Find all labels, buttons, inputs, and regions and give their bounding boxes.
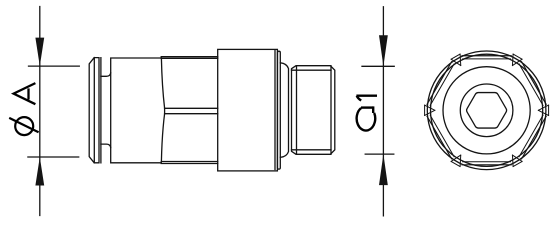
extension line bottom (Ø A): [28, 156, 79, 158]
extension line top (G1): [362, 65, 394, 67]
end view hex corner facet triangles: [425, 54, 549, 167]
collet stem top with fillet: [101, 73, 111, 77]
shoulder hub: [280, 63, 288, 158]
label Ø A : glyph A (rotated): [14, 83, 36, 104]
thread chamfer circle edge: [330, 66, 332, 155]
hex section outline: [161, 57, 218, 164]
thread minor line bottom: [292, 149, 332, 151]
thread relief line: [296, 66, 298, 155]
end view flat chamfer lines: [430, 59, 543, 162]
flange outline: [218, 49, 278, 170]
extension line top (Ø A): [29, 65, 80, 67]
hex center edge lines: [165, 108, 218, 113]
hex inner top line: [161, 57, 217, 59]
thread outline: [292, 66, 335, 155]
extension line bottom (G1): [365, 153, 394, 155]
gasket ring: [278, 51, 281, 169]
arrowhead down (G1 top): [379, 35, 388, 66]
collet stem bottom with fillet: [101, 144, 111, 148]
flange chamfer edge: [274, 51, 276, 170]
thread minor line top: [292, 69, 332, 71]
dimension line G1: [382, 7, 384, 216]
hex chamfer arc middle band: [164, 108, 166, 113]
label G1 : glyph 1 (rotated): [356, 96, 377, 101]
end view chamfer circle: [431, 54, 543, 166]
hex inner bottom line: [161, 161, 217, 163]
label Ø A : glyph Ø (rotated, circle + overshooting slash): [9, 117, 38, 135]
hex chamfer arc upper face: [161, 58, 164, 108]
label G1 : glyph G (rotated): [357, 106, 376, 130]
end view inner circle C: [443, 67, 530, 154]
end view outer circle: [427, 51, 546, 170]
arrowhead down (Ø A top): [35, 38, 44, 67]
hex chamfer arc lower face: [161, 114, 164, 162]
arrowhead up (Ø A bottom): [35, 157, 44, 186]
end view socket circle: [460, 84, 513, 137]
collet flange outline: [89, 58, 101, 163]
body outline: [111, 58, 162, 163]
hex socket: [467, 93, 507, 129]
arrowhead up (G1 bottom): [379, 154, 388, 185]
end view outer hexagon: [427, 56, 546, 165]
dimension line Ø A: [39, 7, 41, 216]
